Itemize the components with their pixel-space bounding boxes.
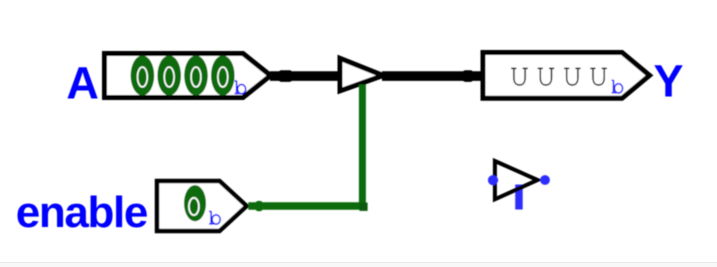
wire W2: bus buffer output to Y bbox=[382, 70, 484, 82]
ghost tool icon: tri-state buffer cursor bbox=[488, 161, 550, 210]
node J2: elbow joint of enable net bbox=[359, 203, 367, 211]
svg-text:enable: enable bbox=[16, 188, 149, 237]
svg-text:A: A bbox=[66, 58, 99, 109]
window bottom edge bbox=[0, 263, 717, 267]
wire W4: enable net vertical segment bbox=[359, 85, 366, 210]
wire W1: bus A to buffer input bbox=[270, 70, 342, 82]
svg-text:Y: Y bbox=[654, 55, 684, 106]
output pin Y bbox=[483, 53, 650, 99]
input pin A bbox=[105, 54, 271, 98]
port dot input bbox=[488, 175, 498, 185]
wire W3: enable net horizontal segment bbox=[248, 202, 366, 209]
op-amp U1: tri-state buffer bbox=[340, 58, 383, 91]
port dot output bbox=[540, 175, 550, 185]
input pin enable bbox=[157, 181, 247, 231]
pin stub (enable port) bbox=[515, 185, 523, 210]
triangle bbox=[495, 161, 538, 199]
node J1: junction dot on enable net bbox=[255, 201, 263, 211]
